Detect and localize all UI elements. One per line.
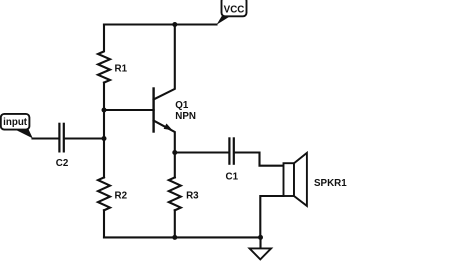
wire emitter node to C1	[175, 151, 229, 153]
capacitor C2	[59, 124, 63, 152]
svg-text:R1: R1	[115, 64, 128, 75]
resistor R3	[169, 177, 181, 210]
speaker SPKR1 body	[284, 163, 295, 196]
wire C2 to node	[65, 137, 104, 139]
transistor Q1 emitter arrow	[164, 124, 173, 131]
svg-text:R3: R3	[186, 191, 199, 202]
ground	[250, 248, 272, 259]
svg-text:C1: C1	[226, 172, 239, 183]
wire base	[104, 109, 154, 111]
resistor R1	[98, 25, 110, 83]
wire input to C2	[33, 137, 59, 139]
svg-text:NPN: NPN	[175, 111, 196, 122]
svg-text:input: input	[3, 117, 28, 128]
wire R2 to bottom rail	[103, 210, 105, 237]
wire bottom rail	[104, 236, 261, 238]
svg-text:R2: R2	[115, 191, 128, 202]
wire R3 to bottom rail	[174, 210, 176, 237]
capacitor C1	[229, 138, 233, 163]
wire R3 top lead	[174, 153, 176, 178]
wire C1 to speaker top	[235, 153, 284, 166]
node top rail / collector	[172, 22, 177, 27]
svg-text:C2: C2	[56, 158, 69, 169]
speaker SPKR1 cone	[294, 153, 307, 206]
node R3 bottom junction	[172, 235, 177, 240]
transistor Q1 emitter	[154, 121, 175, 153]
svg-text:Q1: Q1	[175, 100, 189, 111]
node emitter junction	[172, 150, 177, 155]
net flag input	[1, 114, 33, 138]
node input junction	[102, 136, 107, 141]
transistor Q1 collector	[154, 25, 175, 100]
wire top rail	[104, 23, 217, 25]
resistor R2	[98, 177, 110, 210]
node ground junction	[258, 235, 263, 240]
svg-text:SPKR1: SPKR1	[314, 178, 347, 189]
node base junction	[102, 108, 107, 113]
wire R1 to R2	[103, 83, 105, 178]
svg-text:VCC: VCC	[224, 5, 245, 16]
wire ground stem	[259, 237, 261, 248]
wire speaker bottom return	[260, 196, 283, 237]
transistor Q1 base bar	[152, 89, 154, 132]
net flag VCC	[217, 0, 247, 25]
